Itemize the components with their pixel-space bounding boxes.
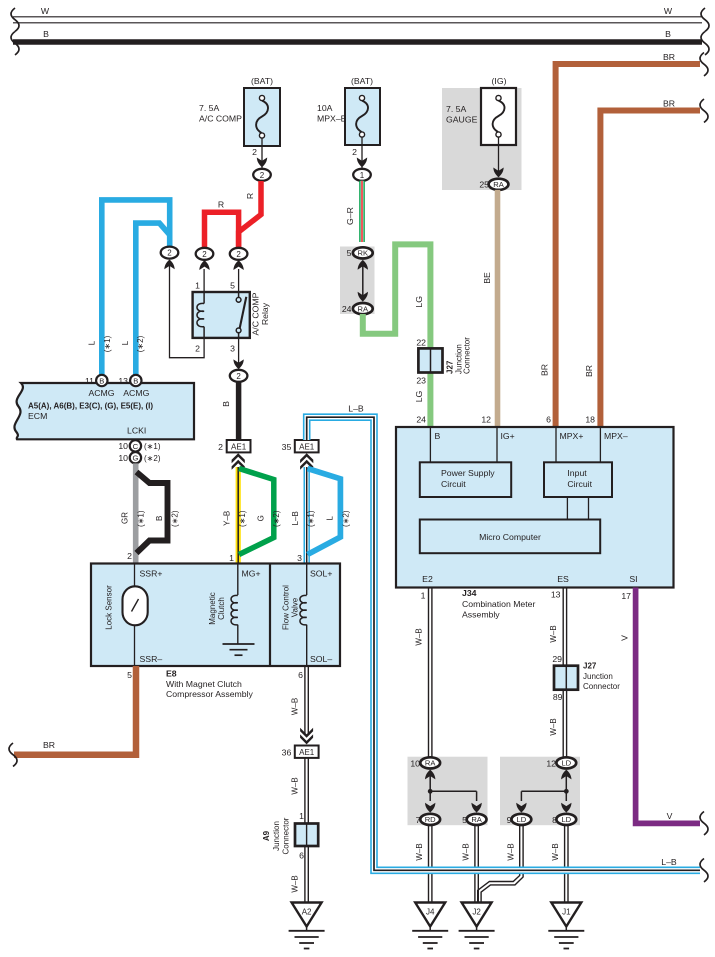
labels E8 pins 5 6 — [127, 670, 303, 680]
label pin 29 — [552, 654, 562, 664]
label W-B (ES lower) — [549, 718, 558, 735]
wire junction LD — [516, 770, 571, 813]
svg-text:E8: E8 — [166, 668, 177, 678]
label W-B (A9 above) — [291, 777, 300, 794]
fuse F3 7.5A GAUGE with gray panel — [442, 76, 522, 190]
wire W-B RA5 to J2 — [475, 825, 478, 903]
svg-text:89: 89 — [553, 692, 563, 702]
connector oval 2 (relay pin1 side) — [196, 248, 214, 260]
ground inside E8 — [223, 644, 255, 655]
label pin 22 — [416, 337, 426, 347]
label W-B (SOL-) — [291, 698, 300, 715]
svg-text:(IG): (IG) — [492, 76, 507, 86]
svg-text:W–B: W–B — [415, 843, 424, 860]
svg-text:W–B: W–B — [549, 718, 558, 735]
svg-text:2: 2 — [260, 171, 265, 180]
wire fuse F2 pin 2 drop — [352, 137, 367, 168]
ground J4 — [412, 903, 448, 949]
label BR upper — [663, 52, 675, 62]
connector oval 8 LD — [552, 814, 576, 825]
break BR lower — [700, 99, 708, 122]
svg-text:W–B: W–B — [291, 875, 300, 892]
svg-text:12: 12 — [546, 758, 556, 768]
svg-text:Y–B: Y–B — [223, 511, 232, 526]
label G-R — [345, 207, 355, 225]
wire BR upper — [556, 64, 700, 427]
label relay pin 5 — [230, 281, 235, 291]
svg-text:J27: J27 — [446, 360, 455, 374]
svg-text:2: 2 — [218, 442, 223, 452]
svg-text:5: 5 — [347, 248, 352, 258]
svg-text:L: L — [326, 516, 335, 521]
svg-text:2: 2 — [202, 250, 207, 259]
svg-text:W–B: W–B — [507, 843, 516, 860]
svg-text:Valve: Valve — [291, 597, 300, 617]
label L (*2) — [121, 335, 145, 352]
wire Y-B — [236, 467, 241, 564]
ground J1 — [548, 903, 584, 949]
svg-text:LD: LD — [517, 815, 527, 824]
connector oval 9 LD — [507, 814, 532, 825]
label L-B top — [348, 403, 364, 413]
svg-text:2: 2 — [252, 147, 257, 157]
connector oval 7 RD — [416, 814, 440, 825]
svg-text:LG: LG — [414, 296, 424, 308]
label LG lower — [414, 390, 424, 402]
svg-text:Input: Input — [567, 468, 587, 478]
ground A2 — [289, 903, 325, 949]
labels Y-B (*1) G (*2) — [223, 510, 281, 527]
wire fuse F1 pin 2 drop — [252, 138, 267, 168]
svg-text:13: 13 — [551, 589, 561, 599]
svg-text:Magnetic: Magnetic — [208, 592, 217, 624]
svg-text:W: W — [41, 6, 50, 16]
svg-text:Flow Control: Flow Control — [281, 585, 290, 630]
svg-text:MPX–: MPX– — [604, 431, 628, 441]
connector 36 AE1 — [282, 746, 319, 758]
label W-B (E2) — [414, 628, 423, 645]
label BR lower — [663, 99, 675, 109]
svg-text:17: 17 — [621, 591, 631, 601]
label BR bottom — [43, 740, 55, 750]
svg-text:10: 10 — [410, 758, 420, 768]
svg-text:A9: A9 — [262, 830, 271, 841]
svg-text:5: 5 — [230, 281, 235, 291]
label W-B (LD9) — [507, 843, 516, 860]
svg-text:Combination Meter: Combination Meter — [462, 599, 536, 609]
svg-text:MPX+: MPX+ — [560, 431, 584, 441]
svg-text:RK: RK — [358, 249, 369, 258]
svg-text:(∗1): (∗1) — [103, 335, 112, 352]
svg-text:Circuit: Circuit — [567, 479, 592, 489]
svg-text:AE1: AE1 — [299, 442, 315, 451]
label relay pin 3 — [230, 344, 235, 354]
connector oval 2 (relay pin3) — [230, 370, 248, 382]
labels SSR+ SSR- — [140, 568, 163, 664]
svg-text:LG: LG — [414, 390, 424, 402]
svg-text:G: G — [132, 454, 138, 463]
svg-text:(∗2): (∗2) — [144, 454, 161, 463]
wire G-R — [359, 181, 365, 242]
connector oval 5 RA — [462, 814, 486, 825]
svg-text:36: 36 — [282, 747, 292, 757]
svg-text:LD: LD — [561, 815, 571, 824]
svg-text:L–B: L–B — [348, 403, 364, 413]
label ECM connectors — [28, 401, 153, 435]
svg-text:3: 3 — [297, 553, 302, 563]
relay switch — [236, 292, 246, 338]
svg-text:LD: LD — [561, 759, 571, 768]
wire V purple — [636, 588, 700, 824]
bus W — [13, 17, 702, 23]
svg-text:SSR–: SSR– — [140, 654, 163, 664]
label E8 With Magnet Clutch Compressor Assembly — [166, 668, 254, 699]
label A9 Junction Connector — [262, 817, 291, 854]
svg-text:B: B — [99, 376, 104, 385]
gray panel LD — [500, 757, 580, 826]
svg-text:2: 2 — [352, 147, 357, 157]
power supply circuit box — [420, 462, 511, 497]
svg-text:J27: J27 — [583, 661, 597, 670]
svg-text:12: 12 — [481, 415, 491, 425]
svg-text:J1: J1 — [562, 908, 571, 917]
svg-text:E2: E2 — [422, 574, 433, 584]
svg-text:6: 6 — [546, 415, 551, 425]
ECM pin 11 B — [85, 375, 108, 386]
label A9 pin 6 — [299, 850, 304, 860]
wire R from fuse F1 — [239, 181, 261, 248]
svg-text:A/C COMP: A/C COMP — [199, 114, 242, 124]
arrow up under oval relay pin1 — [199, 260, 209, 270]
connector oval 10 RA — [410, 757, 440, 768]
break L-B — [700, 859, 708, 882]
svg-text:W–B: W–B — [551, 843, 560, 860]
labels B IG+ MPX+ MPX- — [435, 431, 628, 441]
svg-text:13: 13 — [118, 376, 128, 386]
svg-text:V: V — [667, 811, 673, 821]
connector oval 25 RA (gauge) — [479, 179, 508, 190]
wires input to micro — [567, 497, 588, 520]
svg-text:24: 24 — [416, 415, 426, 425]
arrows up under 35 AE1 — [300, 453, 313, 470]
label W right — [664, 6, 673, 16]
wire relay pin2 to blue oval — [170, 263, 205, 358]
svg-text:AE1: AE1 — [231, 442, 247, 451]
wire W-B from ES — [563, 588, 566, 758]
label W-B (J4) — [415, 843, 424, 860]
svg-text:ACMG: ACMG — [88, 388, 114, 398]
svg-text:5: 5 — [127, 670, 132, 680]
label A9 pin 1 — [299, 811, 304, 821]
svg-text:(∗1): (∗1) — [238, 510, 247, 527]
svg-text:W–B: W–B — [414, 628, 423, 645]
svg-text:Connector: Connector — [282, 817, 291, 854]
junction connector J27 (ES) — [554, 666, 578, 690]
label pin 12 — [481, 415, 491, 425]
svg-text:10: 10 — [118, 453, 128, 463]
svg-text:B: B — [435, 431, 441, 441]
wire junction RA — [425, 770, 482, 813]
wire W-B from E2 — [429, 588, 432, 758]
svg-text:BR: BR — [663, 52, 675, 62]
svg-text:Clutch: Clutch — [217, 597, 226, 620]
svg-text:1: 1 — [229, 553, 234, 563]
ECM pin 10 G — [118, 452, 160, 463]
svg-text:R: R — [218, 200, 224, 210]
svg-text:29: 29 — [552, 654, 562, 664]
svg-text:35: 35 — [282, 442, 292, 452]
svg-text:2: 2 — [195, 344, 200, 354]
E8 compressor assembly box — [91, 564, 340, 667]
svg-text:(∗1): (∗1) — [144, 442, 161, 451]
svg-text:B: B — [43, 29, 49, 39]
wire L inner (ECM pin 13) — [136, 223, 170, 376]
svg-text:RA: RA — [471, 815, 482, 824]
wire L loop — [308, 469, 341, 555]
connector oval 24 RA — [342, 303, 373, 314]
junction connector A9 — [295, 824, 318, 847]
svg-text:J4: J4 — [426, 908, 435, 917]
input circuit box — [544, 462, 612, 497]
label E8 pin 3 — [297, 553, 302, 563]
connector oval 5 RK — [347, 247, 373, 258]
svg-text:Junction: Junction — [583, 672, 613, 681]
wire BE — [495, 190, 501, 427]
svg-text:1: 1 — [195, 281, 200, 291]
svg-text:AE1: AE1 — [299, 748, 315, 757]
svg-text:B: B — [155, 516, 164, 521]
svg-text:(∗2): (∗2) — [136, 335, 145, 352]
svg-text:ES: ES — [557, 574, 569, 584]
labels E2 ES SI — [422, 574, 637, 584]
J34 combination meter box — [396, 427, 674, 588]
label pin 6 — [546, 415, 551, 425]
wire L-B (*1) to SOL+ — [304, 467, 310, 564]
wire W-B from SOL- — [305, 666, 308, 735]
svg-text:ACMG: ACMG — [123, 388, 149, 398]
svg-text:L: L — [121, 340, 130, 345]
svg-text:Assembly: Assembly — [462, 609, 500, 619]
svg-text:6: 6 — [299, 850, 304, 860]
magnetic clutch coil — [208, 564, 238, 644]
svg-text:MPX–B: MPX–B — [317, 114, 347, 124]
svg-text:RA: RA — [493, 180, 504, 189]
svg-text:BR: BR — [540, 364, 550, 376]
label pin 23 — [416, 376, 426, 386]
label BR rotated on MPX+ wire — [540, 364, 550, 376]
label pin 13 (ES) — [551, 589, 561, 599]
connector oval 1 (fuse F2) — [353, 169, 371, 181]
arrow up under L oval — [164, 260, 174, 270]
svg-text:B: B — [665, 29, 671, 39]
svg-text:Power Supply: Power Supply — [441, 468, 495, 478]
arrows up under 2 AE1 — [232, 453, 245, 470]
svg-text:SSR+: SSR+ — [140, 568, 163, 578]
svg-text:1: 1 — [421, 590, 426, 600]
svg-text:A2: A2 — [302, 908, 312, 917]
svg-text:GR: GR — [120, 512, 129, 524]
label pin 17 (SI) — [621, 591, 631, 601]
svg-text:Relay: Relay — [260, 302, 270, 325]
connector oval 2 (relay pin5 side) — [230, 248, 248, 260]
break W left — [11, 8, 19, 31]
relay coil — [197, 292, 204, 338]
label J34 Combination Meter Assembly — [462, 588, 536, 620]
wire W-B A9 to A2 — [305, 846, 308, 903]
label pin 18 — [585, 415, 595, 425]
svg-text:(∗2): (∗2) — [170, 510, 179, 527]
svg-text:BR: BR — [584, 365, 594, 377]
junction connector J27 (LG) — [418, 348, 442, 372]
label E8 pin 1 — [229, 553, 234, 563]
svg-text:ECM: ECM — [28, 411, 47, 421]
break BR bottom — [9, 743, 17, 766]
svg-text:Junction: Junction — [272, 821, 281, 851]
labels L-B (*1) L (*2) — [291, 510, 350, 527]
svg-text:11: 11 — [85, 376, 94, 386]
svg-text:Connector: Connector — [463, 337, 472, 374]
svg-text:W–B: W–B — [291, 698, 300, 715]
svg-text:SI: SI — [629, 574, 637, 584]
ECM box — [14, 383, 194, 439]
connector oval 12 LD — [546, 757, 576, 768]
svg-text:7. 5A: 7. 5A — [446, 104, 466, 114]
connector 2 AE1 — [218, 440, 250, 452]
svg-text:1: 1 — [299, 811, 304, 821]
wire RK-RA with arrows — [358, 260, 368, 302]
arrow up under oval relay pin5 — [233, 260, 243, 270]
wire G loop — [239, 469, 274, 555]
labels GR (*1) B (*2) — [120, 510, 179, 527]
label W left — [41, 6, 50, 16]
label pin 24 — [416, 415, 426, 425]
svg-text:(∗2): (∗2) — [341, 510, 350, 527]
J34 internal pin leads — [430, 427, 600, 462]
svg-text:LCKI: LCKI — [127, 426, 146, 436]
label R horizontal — [218, 200, 224, 210]
wire W-B RD to J4 — [429, 825, 432, 903]
label L (*1) — [87, 335, 112, 352]
label B right — [665, 29, 671, 39]
svg-text:Compressor Assembly: Compressor Assembly — [166, 689, 254, 699]
svg-text:BE: BE — [482, 272, 492, 284]
svg-text:GAUGE: GAUGE — [446, 115, 478, 125]
ECM pin 13 B — [118, 375, 141, 386]
wire R branch to relay pin 1 — [205, 212, 239, 248]
svg-text:(∗2): (∗2) — [272, 510, 281, 527]
label B left — [43, 29, 49, 39]
micro computer box — [420, 520, 600, 554]
label W-B (J1) — [551, 843, 560, 860]
arrows down above 36 AE1 — [300, 728, 313, 745]
svg-text:RA: RA — [358, 304, 369, 313]
svg-text:L–B: L–B — [661, 857, 677, 867]
wire relay pin1 lead — [203, 269, 205, 292]
svg-text:BR: BR — [43, 740, 55, 750]
ECM pin 10 C — [118, 440, 160, 451]
wire fuse F3 pin 25 drop — [493, 137, 503, 177]
svg-text:22: 22 — [416, 337, 426, 347]
svg-text:C: C — [133, 442, 139, 451]
svg-text:1: 1 — [360, 171, 365, 180]
svg-text:SOL+: SOL+ — [310, 568, 332, 578]
svg-text:6: 6 — [298, 670, 303, 680]
svg-text:Lock Sensor: Lock Sensor — [104, 585, 113, 630]
svg-text:23: 23 — [416, 376, 426, 386]
break V — [700, 812, 708, 835]
svg-text:2: 2 — [127, 551, 132, 561]
svg-text:G–R: G–R — [345, 207, 355, 225]
bus B — [13, 39, 702, 45]
break W right — [701, 8, 709, 31]
svg-text:SOL–: SOL– — [310, 654, 332, 664]
svg-text:RD: RD — [425, 815, 436, 824]
svg-text:3: 3 — [230, 344, 235, 354]
svg-text:W–B: W–B — [291, 777, 300, 794]
gray panel RK/RA — [340, 247, 375, 315]
svg-text:18: 18 — [585, 415, 595, 425]
wire W-B AE1 to A9 — [305, 758, 308, 824]
svg-text:L–B: L–B — [291, 511, 300, 525]
wire W-B LD9 jog to J2 — [478, 825, 523, 903]
svg-text:L: L — [87, 340, 96, 345]
svg-text:2: 2 — [167, 249, 172, 258]
svg-text:2: 2 — [236, 250, 241, 259]
label J27 Junction Connector (ES) — [583, 661, 620, 691]
svg-text:BR: BR — [663, 99, 675, 109]
label A/C COMP Relay — [251, 292, 270, 335]
break BR upper — [700, 53, 708, 76]
label W-B (ES upper) — [549, 625, 558, 642]
wire relay pin5 lead — [238, 269, 240, 292]
fuse F1 7.5A A/C COMP — [199, 76, 280, 146]
label BR rotated on MPX- wire — [584, 365, 594, 377]
wire L outer (ECM pin 11) — [102, 200, 170, 376]
break B left — [11, 32, 19, 55]
svg-text:W–B: W–B — [549, 625, 558, 642]
label relay pin 2 — [195, 344, 200, 354]
label J27 Junction Connector (LG) — [446, 337, 472, 374]
svg-text:24: 24 — [342, 304, 352, 314]
svg-text:(∗1): (∗1) — [307, 510, 316, 527]
svg-text:MG+: MG+ — [242, 568, 261, 578]
svg-text:V: V — [619, 635, 629, 641]
svg-text:B: B — [133, 376, 138, 385]
wire LG — [363, 244, 431, 427]
svg-text:RA: RA — [425, 759, 436, 768]
wire GR — [133, 463, 139, 563]
svg-text:G: G — [256, 515, 265, 521]
label V horizontal — [667, 811, 673, 821]
label pin 89 — [553, 692, 563, 702]
wire B loop — [137, 472, 168, 553]
svg-text:IG+: IG+ — [501, 431, 515, 441]
label LG upper — [414, 296, 424, 308]
connector oval 2 (fuse F1) — [253, 169, 271, 181]
labels MG+ SOL+ SOL- — [242, 568, 333, 664]
svg-text:With Magnet Clutch: With Magnet Clutch — [166, 679, 242, 689]
label relay pin 1 — [195, 281, 200, 291]
connector oval 2 (L wires) — [161, 247, 179, 259]
fuse F2 10A MPX-B — [317, 76, 380, 145]
wire L-B main — [307, 417, 700, 870]
wire B black relay to AE1 — [236, 382, 242, 441]
label W-B (A2 above) — [291, 875, 300, 892]
break B right — [701, 32, 709, 55]
svg-text:(∗1): (∗1) — [137, 510, 146, 527]
svg-text:W: W — [664, 6, 673, 16]
label R rotated — [245, 193, 255, 199]
